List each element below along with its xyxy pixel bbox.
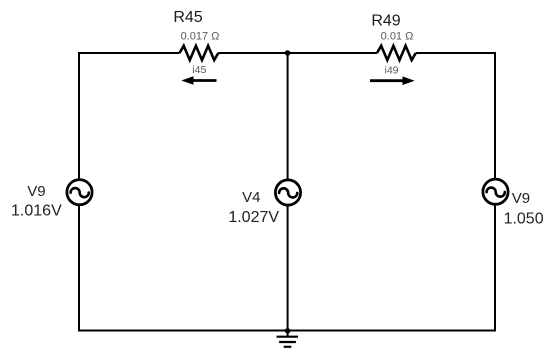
svg-text:0.017 Ω: 0.017 Ω <box>181 31 220 43</box>
svg-text:0.01 Ω: 0.01 Ω <box>381 31 414 43</box>
svg-text:V9: V9 <box>27 183 45 200</box>
svg-text:R49: R49 <box>371 13 400 30</box>
wire right upper <box>494 52 496 179</box>
ground <box>277 331 299 347</box>
resistor R45 <box>180 46 219 60</box>
voltage source V9 (right) <box>483 179 508 204</box>
current arrow i49 (pointing right) <box>370 76 415 85</box>
svg-text:V4: V4 <box>242 189 260 206</box>
wire right lower <box>494 204 496 331</box>
svg-text:1.027V: 1.027V <box>228 209 279 226</box>
current arrow i45 (pointing left) <box>181 76 216 85</box>
svg-text:1.016V: 1.016V <box>11 203 62 220</box>
voltage source V4 (middle) <box>275 180 300 205</box>
svg-text:R45: R45 <box>173 9 202 26</box>
svg-text:1.050: 1.050 <box>504 211 544 228</box>
wire top-left segment <box>79 52 180 54</box>
wire left upper <box>78 52 80 180</box>
svg-text:i49: i49 <box>384 64 398 76</box>
voltage source V9 (left) <box>67 180 92 205</box>
resistor R49 <box>377 46 416 60</box>
wire top-right segment <box>416 52 495 54</box>
node junction top-middle <box>285 50 291 56</box>
wire left lower <box>78 205 80 332</box>
wire middle lower <box>287 205 289 331</box>
svg-text:i45: i45 <box>192 64 206 76</box>
wire middle upper <box>287 53 289 180</box>
node junction bottom-middle <box>285 328 291 334</box>
svg-text:V9: V9 <box>512 190 530 207</box>
wire bottom <box>79 330 495 332</box>
wire top-middle segment <box>218 52 377 54</box>
